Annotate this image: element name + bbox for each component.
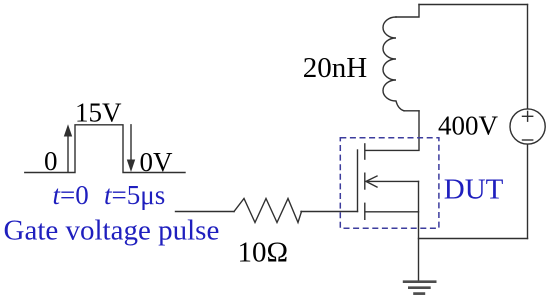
svg-text:0: 0: [44, 146, 58, 176]
wire: drain stub: [366, 111, 420, 150]
wire: inductor bottom jog to drain rail: [404, 110, 419, 112]
V1 minus sign: [523, 139, 533, 141]
up arrow (turn-on): [64, 124, 72, 171]
svg-text:20nH: 20nH: [303, 52, 368, 84]
wire: source stub: [366, 211, 419, 213]
MOSFET body contact tick: [364, 173, 366, 189]
wire: bottom rail to source negative: [419, 238, 528, 240]
wire: body stub with arrow: [367, 180, 419, 182]
V1 plus sign: [523, 111, 533, 121]
ground: [403, 282, 437, 294]
resistor R 10ohm zigzag: [234, 199, 302, 223]
wire: top rail down to inductor: [396, 5, 419, 18]
wire: resistor to MOSFET gate: [301, 211, 358, 213]
svg-text:t=0: t=0: [53, 180, 89, 210]
voltage source V1 circle: [510, 109, 545, 144]
wire: pulse output to resistor: [176, 211, 235, 213]
inductor L 20nH coil: [383, 17, 404, 111]
svg-text:400V: 400V: [438, 111, 499, 141]
DUT dashed box: [340, 138, 439, 228]
MOSFET gate vertical bar: [357, 150, 359, 212]
wire: right rail below source: [527, 144, 529, 238]
svg-text:DUT: DUT: [444, 174, 504, 206]
MOSFET source contact tick: [364, 203, 366, 219]
wire: right rail above source: [527, 5, 529, 109]
wire: source/body down to ground node: [418, 181, 420, 281]
svg-text:15V: 15V: [75, 98, 122, 128]
MOSFET drain contact tick: [364, 144, 366, 159]
MOSFET body arrow head: [366, 176, 377, 187]
svg-text:Gate voltage pulse: Gate voltage pulse: [4, 215, 220, 247]
gate pulse waveform: [25, 125, 185, 173]
wire: top rail: [419, 4, 528, 6]
down arrow (turn-off): [127, 125, 135, 172]
svg-text:10Ω: 10Ω: [238, 237, 289, 269]
svg-text:0V: 0V: [140, 147, 174, 177]
svg-text:t=5μs: t=5μs: [104, 180, 165, 210]
